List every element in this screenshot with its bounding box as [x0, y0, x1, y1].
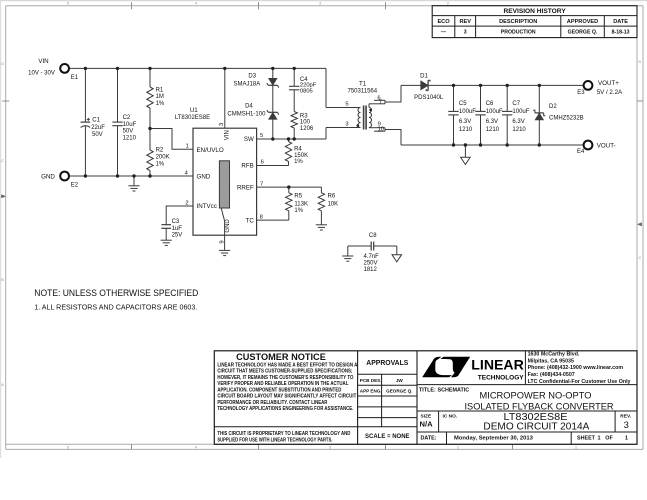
svg-text:3: 3 — [219, 123, 225, 126]
svg-text:1: 1 — [598, 435, 601, 441]
svg-text:TECHNOLOGY: TECHNOLOGY — [478, 374, 525, 381]
svg-text:DATE: DATE — [613, 19, 628, 25]
svg-text:E3: E3 — [577, 90, 585, 96]
svg-text:MICROPOWER NO-OPTO: MICROPOWER NO-OPTO — [480, 391, 592, 402]
svg-text:1. ALL RESISTORS AND CAPACITO: 1. ALL RESISTORS AND CAPACITORS ARE 0603… — [34, 303, 197, 312]
svg-text:1210: 1210 — [459, 127, 473, 133]
svg-text:GEORGE Q.: GEORGE Q. — [386, 389, 412, 394]
svg-text:D4: D4 — [245, 103, 253, 109]
svg-text:R4: R4 — [294, 147, 302, 153]
svg-text:750311564: 750311564 — [348, 88, 378, 94]
svg-text:A: A — [1, 382, 4, 387]
svg-text:100: 100 — [300, 120, 311, 126]
svg-text:T1: T1 — [359, 80, 367, 87]
svg-text:100uF: 100uF — [486, 109, 503, 115]
svg-text:C7: C7 — [512, 101, 520, 107]
svg-text:1%: 1% — [294, 159, 303, 165]
svg-text:DEMO CIRCUIT 2014A: DEMO CIRCUIT 2014A — [483, 422, 589, 433]
svg-text:2: 2 — [185, 200, 188, 206]
svg-text:OF: OF — [605, 435, 613, 441]
svg-text:TC: TC — [246, 217, 255, 224]
svg-text:CMHZ5232B: CMHZ5232B — [549, 116, 584, 122]
svg-text:—: — — [441, 30, 447, 36]
svg-text:APPROVED: APPROVED — [567, 19, 598, 25]
svg-text:1210: 1210 — [123, 135, 137, 141]
svg-text:SUPPLIED FOR USE WITH LINEAR T: SUPPLIED FOR USE WITH LINEAR TECHNOLOGY … — [217, 437, 332, 443]
svg-text:LINEAR: LINEAR — [471, 357, 524, 373]
svg-text:Milpitas, CA 95035: Milpitas, CA 95035 — [528, 358, 574, 364]
svg-text:22uF: 22uF — [91, 125, 105, 131]
svg-text:C6: C6 — [486, 101, 494, 107]
svg-text:N/A: N/A — [420, 419, 434, 428]
svg-text:APP ENG.: APP ENG. — [360, 389, 382, 394]
svg-text:GEORGE Q.: GEORGE Q. — [568, 30, 598, 36]
svg-text:VOUT+: VOUT+ — [598, 80, 619, 87]
svg-text:INTVcc: INTVcc — [197, 203, 217, 210]
svg-text:C3: C3 — [172, 219, 180, 225]
svg-text:1%: 1% — [156, 101, 165, 107]
svg-text:HOWEVER, IT REMAINS THE CUSTOM: HOWEVER, IT REMAINS THE CUSTOMER'S RESPO… — [217, 375, 353, 381]
svg-text:10V - 30V: 10V - 30V — [28, 71, 55, 77]
svg-text:CIRCUIT THAT MEETS CUSTOMER-SU: CIRCUIT THAT MEETS CUSTOMER-SUPPLIED SPE… — [217, 369, 352, 375]
svg-text:D3: D3 — [248, 73, 256, 79]
svg-text:1: 1 — [625, 435, 628, 441]
svg-text:TITLE:: TITLE: — [419, 388, 436, 394]
svg-text:PCB DES.: PCB DES. — [360, 378, 382, 383]
svg-text:VIN: VIN — [225, 130, 231, 140]
svg-text:6.3V: 6.3V — [486, 119, 498, 125]
svg-text:D1: D1 — [420, 74, 428, 80]
svg-text:SHEET: SHEET — [577, 435, 596, 441]
svg-text:1M: 1M — [156, 94, 164, 100]
svg-text:150K: 150K — [294, 153, 308, 159]
svg-text:SW: SW — [244, 136, 254, 143]
svg-text:C: C — [1, 158, 4, 163]
svg-text:10uF: 10uF — [123, 122, 137, 128]
svg-text:1206: 1206 — [300, 126, 314, 132]
svg-text:VOUT-: VOUT- — [597, 142, 616, 149]
svg-text:C: C — [639, 255, 642, 260]
svg-text:NOTE: UNLESS OTHERWISE SPECIFI: NOTE: UNLESS OTHERWISE SPECIFIED — [34, 288, 198, 298]
svg-text:1630 McCarthy Blvd.: 1630 McCarthy Blvd. — [528, 352, 580, 358]
svg-text:3: 3 — [624, 419, 629, 430]
svg-text:ECO: ECO — [437, 19, 450, 25]
svg-text:THIS CIRCUIT IS PROPRIETARY TO: THIS CIRCUIT IS PROPRIETARY TO LINEAR TE… — [217, 431, 350, 437]
svg-text:1210: 1210 — [486, 127, 500, 133]
svg-text:LINEAR TECHNOLOGY HAS MADE A B: LINEAR TECHNOLOGY HAS MADE A BEST EFFORT… — [217, 362, 357, 368]
svg-text:GND: GND — [225, 219, 231, 233]
svg-text:R6: R6 — [328, 194, 336, 200]
svg-text:5V / 2.2A: 5V / 2.2A — [597, 89, 623, 96]
svg-text:1210: 1210 — [512, 127, 526, 133]
svg-text:10K: 10K — [328, 201, 339, 207]
svg-text:7: 7 — [379, 99, 382, 105]
svg-text:1%: 1% — [294, 208, 303, 214]
svg-text:0805: 0805 — [300, 89, 313, 95]
svg-text:DATE:: DATE: — [421, 435, 437, 441]
svg-text:1uF: 1uF — [172, 226, 183, 232]
svg-text:CMMSH1-100: CMMSH1-100 — [227, 112, 266, 118]
svg-text:JW: JW — [396, 378, 404, 383]
svg-text:Fax: (408)434-0507: Fax: (408)434-0507 — [528, 372, 575, 378]
svg-text:220pF: 220pF — [300, 82, 317, 88]
svg-text:C5: C5 — [459, 101, 467, 107]
svg-text:GND: GND — [197, 173, 211, 180]
svg-text:LT8302ES8E: LT8302ES8E — [175, 115, 210, 121]
svg-text:SCHEMATIC: SCHEMATIC — [438, 388, 470, 394]
svg-text:10: 10 — [378, 127, 384, 133]
svg-text:6: 6 — [261, 160, 264, 166]
svg-text:VERIFY PROPER AND RELIABLE OPE: VERIFY PROPER AND RELIABLE OPERATION IN … — [217, 381, 348, 387]
svg-text:E2: E2 — [71, 183, 79, 189]
svg-text:IC NO.: IC NO. — [443, 413, 458, 419]
svg-text:R1: R1 — [156, 87, 164, 93]
svg-text:3: 3 — [464, 30, 467, 36]
svg-text:LTC Confidential-For Customer: LTC Confidential-For Customer Use Only — [528, 379, 631, 385]
svg-text:ISOLATED FLYBACK CONVERTER: ISOLATED FLYBACK CONVERTER — [465, 401, 614, 412]
svg-text:PRODUCTION: PRODUCTION — [501, 30, 536, 36]
svg-text:1: 1 — [186, 144, 189, 150]
svg-text:Monday, September 30, 2013: Monday, September 30, 2013 — [454, 435, 534, 441]
svg-text:5: 5 — [260, 133, 263, 139]
svg-text:CIRCUIT BOARD LAYOUT MAY SIGNI: CIRCUIT BOARD LAYOUT MAY SIGNIFICANTLY A… — [217, 394, 357, 400]
svg-text:50V: 50V — [123, 128, 134, 134]
svg-text:7: 7 — [260, 181, 263, 187]
svg-text:50V: 50V — [92, 132, 103, 138]
svg-text:D: D — [639, 59, 642, 64]
svg-text:8-18-13: 8-18-13 — [612, 30, 630, 36]
svg-text:PDS1040L: PDS1040L — [414, 95, 444, 101]
svg-text:E1: E1 — [71, 75, 79, 81]
svg-text:C8: C8 — [369, 233, 377, 239]
svg-text:VIN: VIN — [38, 58, 48, 65]
svg-text:B: B — [1, 277, 4, 282]
svg-text:D2: D2 — [549, 104, 557, 110]
svg-text:SMAJ18A: SMAJ18A — [234, 82, 261, 88]
svg-text:TECHNOLOGY APPLICATIONS ENGINE: TECHNOLOGY APPLICATIONS ENGINEERING FOR … — [217, 406, 353, 412]
svg-text:1%: 1% — [156, 161, 165, 167]
svg-text:3: 3 — [345, 122, 348, 128]
svg-text:R2: R2 — [156, 148, 164, 154]
svg-text:6.3V: 6.3V — [512, 119, 524, 125]
svg-text:EN/UVLO: EN/UVLO — [197, 147, 224, 154]
svg-text:REVISION HISTORY: REVISION HISTORY — [503, 8, 566, 15]
svg-text:RREF: RREF — [237, 184, 254, 191]
svg-text:PERFORMANCE OR RELIABILITY. C: PERFORMANCE OR RELIABILITY. CONTACT LINE… — [217, 400, 327, 406]
svg-text:DESCRIPTION: DESCRIPTION — [499, 19, 537, 25]
svg-text:250V: 250V — [364, 261, 378, 267]
svg-text:113K: 113K — [294, 201, 308, 207]
svg-text:Phone: (408)432-1900 www.lin: Phone: (408)432-1900 www.linear.com — [528, 365, 624, 371]
svg-text:GND: GND — [41, 173, 55, 180]
svg-text:D: D — [1, 61, 4, 66]
svg-text:C1: C1 — [92, 117, 100, 123]
svg-text:APPLICATION. COMPONENT SUBSTI: APPLICATION. COMPONENT SUBSTITUTION AND … — [217, 387, 341, 393]
svg-text:CUSTOMER NOTICE: CUSTOMER NOTICE — [236, 352, 326, 362]
svg-text:U1: U1 — [190, 107, 198, 114]
svg-text:E4: E4 — [577, 149, 585, 155]
svg-text:REV: REV — [459, 19, 471, 25]
svg-text:1812: 1812 — [364, 267, 378, 273]
svg-text:100uF: 100uF — [512, 109, 529, 115]
svg-text:6.3V: 6.3V — [459, 119, 471, 125]
svg-text:4.7nF: 4.7nF — [364, 254, 380, 260]
svg-text:R5: R5 — [294, 194, 302, 200]
svg-text:25V: 25V — [172, 233, 183, 239]
svg-text:5: 5 — [345, 102, 348, 108]
svg-text:SCALE = NONE: SCALE = NONE — [365, 434, 410, 440]
svg-text:200K: 200K — [156, 155, 170, 161]
svg-text:C2: C2 — [123, 115, 131, 121]
svg-text:APPROVALS: APPROVALS — [366, 360, 408, 367]
svg-text:RFB: RFB — [241, 162, 253, 169]
svg-text:100uF: 100uF — [459, 109, 476, 115]
svg-text:8: 8 — [260, 214, 263, 220]
